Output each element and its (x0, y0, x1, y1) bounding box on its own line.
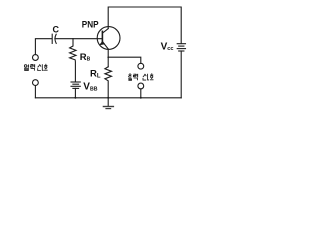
junction rail VBB (74, 97, 76, 99)
wire input top (35, 39, 52, 55)
transistor base bar (101, 31, 103, 43)
력 (133, 74, 136, 77)
junction rail ground (107, 97, 109, 99)
신 (38, 64, 40, 67)
wire base lead (55, 38, 102, 40)
wire top rail (108, 7, 181, 43)
battery Vcc (177, 44, 185, 98)
junction rail output (140, 97, 142, 99)
호 (45, 63, 46, 65)
battery VBB (71, 82, 80, 98)
wire input bottom (34, 86, 36, 98)
output terminal 2 (138, 83, 144, 89)
resistor RL (105, 67, 112, 98)
capacitor C plates (51, 34, 53, 43)
ground (103, 98, 113, 109)
입 (24, 65, 27, 68)
wire collector to output (108, 57, 141, 63)
transistor collector diagonal (104, 43, 109, 49)
junction collector/output (107, 56, 109, 58)
력 (30, 65, 33, 68)
label output signal (출력 신호) (128, 74, 153, 81)
wire bottom rail (35, 97, 181, 99)
신 (143, 74, 145, 77)
호 (151, 73, 152, 75)
resistor RB (70, 39, 76, 82)
output terminal 1 (138, 63, 144, 69)
input terminal 2 (33, 80, 39, 86)
wire collector down (107, 49, 109, 67)
transistor emitter diagonal (103, 29, 109, 33)
label input signal (입력 신호) (24, 64, 47, 70)
svg-text:PNP: PNP (82, 20, 99, 31)
svg-text:C: C (53, 24, 60, 34)
출 (129, 73, 130, 75)
transistor Q1 circle (97, 27, 120, 50)
input terminal 1 (33, 55, 39, 61)
transistor PNP arrow (99, 41, 105, 45)
wire output bottom (140, 89, 142, 98)
